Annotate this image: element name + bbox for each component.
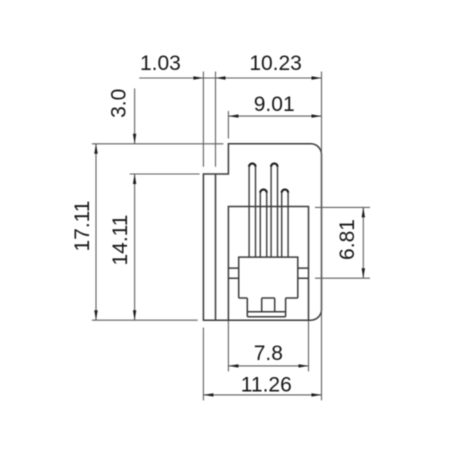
- contact block: [239, 257, 298, 298]
- dimension line 17.11: [95, 144, 97, 320]
- pin 1: [249, 164, 255, 258]
- svg-text:6.81: 6.81: [336, 219, 359, 260]
- extension lines bottom 11.26: [202, 328, 204, 401]
- svg-text:1.03: 1.03: [140, 52, 181, 75]
- extension lines top: [203, 72, 321, 401]
- svg-text:11.26: 11.26: [241, 374, 292, 397]
- dimension line 6.81: [362, 207, 364, 278]
- right ear lines: [298, 268, 309, 278]
- left ear lines: [228, 268, 238, 278]
- dimension line 9.01: [228, 115, 321, 117]
- svg-text:14.11: 14.11: [109, 215, 132, 266]
- dimension line 1.03 / 10.23: [139, 77, 321, 79]
- svg-text:7.8: 7.8: [254, 342, 283, 365]
- jack opening rectangle: [228, 207, 308, 321]
- extension line 9.01: [227, 111, 229, 139]
- pin 2: [260, 189, 266, 257]
- dimension line 3.0: [134, 88, 136, 143]
- flange back edge line: [215, 174, 217, 320]
- svg-text:3.0: 3.0: [107, 89, 130, 118]
- svg-text:9.01: 9.01: [254, 93, 295, 116]
- plug cavity bottom profile: [239, 298, 298, 317]
- pin 3: [271, 164, 277, 258]
- extension lines bottom 7.8: [228, 321, 308, 371]
- dimension line 7.8: [228, 365, 308, 367]
- svg-text:10.23: 10.23: [249, 52, 302, 75]
- svg-text:17.11: 17.11: [71, 201, 94, 252]
- pin 4: [282, 190, 288, 258]
- extension lines left: [92, 144, 224, 320]
- dimension line 14.11: [134, 174, 136, 320]
- extension lines right: [315, 207, 370, 278]
- dimension line 11.26: [203, 394, 321, 396]
- body outline: [203, 144, 321, 320]
